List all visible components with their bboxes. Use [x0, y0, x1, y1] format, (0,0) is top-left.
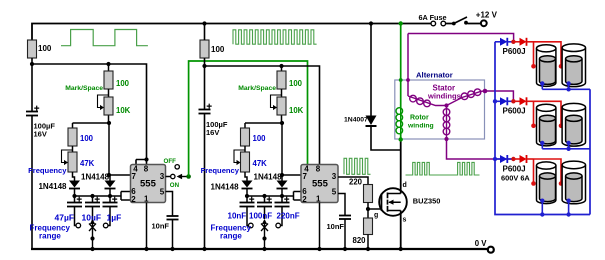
wire: positive feed to capacitor bank row 3 (red) [534, 159, 562, 184]
wire: circuit2 Vcc rail [205, 66, 320, 165]
svg-text:+12 V: +12 V [476, 11, 498, 20]
wire: circuit2 left column [204, 24, 206, 250]
junction: C1/rail node [30, 62, 34, 66]
wire: pin1 to ground circuit 1 [146, 203, 148, 250]
svg-text:555: 555 [312, 178, 329, 189]
svg-text:100: 100 [116, 79, 130, 88]
junction: phase/diode node row 3 [511, 157, 515, 161]
capacitor bank row 3 (4 electrolytics) [537, 161, 586, 204]
capacitor C1 100uF 16V [26, 106, 55, 139]
junction: R8 ground [366, 247, 370, 251]
terminal +12V [476, 11, 498, 27]
waveform: drain burst waveform [406, 162, 480, 175]
wire: pin1 to ground circuit 2 [319, 203, 321, 250]
svg-text:8: 8 [316, 165, 321, 174]
capacitor bank row 2 (4 electrolytics) [537, 103, 586, 146]
capacitor C7 10nF circuit 2 [228, 196, 255, 226]
resistor R4 100 (supply decoupling, circuit 2) [200, 40, 225, 58]
svg-text:16V: 16V [34, 130, 47, 139]
wire: bank negative leads row 3 (blue) [542, 201, 568, 215]
node A junction circuit2 [280, 121, 284, 125]
svg-text:100: 100 [80, 134, 94, 143]
rotor winding (green) [396, 21, 434, 141]
junction: C5 ground [170, 247, 174, 251]
diode D9 P600J (upper, red) row 2 [513, 97, 533, 105]
diode D3 1N4148 circuit 2 [211, 172, 253, 196]
waveform: 555 #2 output fast square wave [233, 30, 317, 44]
svg-text:5: 5 [160, 187, 165, 196]
svg-text:P600J: P600J [503, 164, 526, 173]
diode D5 1N4007 flyback [344, 24, 401, 151]
junction: C10 ground [343, 247, 347, 251]
wire: circuit1 left column [31, 58, 33, 249]
wire: node A to pin7 circuit 1 [73, 116, 131, 176]
junction: circuit2 rail tap [202, 21, 206, 25]
svg-text:100: 100 [38, 44, 52, 53]
junction: switch pole ground circuit 1 [90, 247, 94, 251]
svg-text:1: 1 [316, 194, 321, 203]
alternator enclosure box [395, 80, 485, 139]
capacitor C2 47uF circuit 1 [55, 196, 83, 226]
svg-text:1N4148: 1N4148 [38, 182, 67, 191]
svg-text:3: 3 [332, 172, 337, 181]
svg-text:OFF: OFF [164, 158, 177, 165]
svg-text:10K: 10K [116, 106, 131, 115]
svg-text:10µF: 10µF [82, 213, 102, 223]
node A junction circuit1 [107, 121, 111, 125]
wire: phase 3 feed (purple) [447, 139, 514, 159]
svg-text:100: 100 [289, 79, 303, 88]
resistor R3 100 (frequency, circuit 1) [68, 123, 94, 146]
svg-text:7: 7 [132, 172, 137, 181]
wire: bank negative leads row 2 (blue) [542, 143, 568, 149]
capacitor C8 100nF circuit 2 [249, 196, 272, 221]
svg-text:2: 2 [302, 195, 307, 204]
diode D7 P600J (upper, red) row 1 [513, 38, 533, 46]
potentiometer VR1 10K mark/space circuit 1 [98, 89, 131, 115]
svg-text:s: s [403, 217, 407, 224]
wire: positive feed to capacitor bank row 2 (red) [534, 101, 562, 126]
svg-text:g: g [374, 212, 378, 219]
junctions: timing caps circuit1 [72, 194, 76, 198]
svg-text:7: 7 [303, 172, 308, 181]
svg-text:1N4148: 1N4148 [254, 173, 283, 182]
terminal 0V [475, 239, 494, 253]
svg-text:16V: 16V [206, 128, 219, 137]
capacitor C5 10nF circuit 1 (pin 5) [152, 192, 179, 250]
svg-text:1: 1 [144, 194, 149, 203]
diode D10 P600J (lower, blue) row 3 [495, 155, 513, 163]
svg-text:BUZ350: BUZ350 [413, 197, 441, 206]
wire: rectifier negative bus (blue) [495, 42, 590, 215]
junction: pin4/8 tie circuit1 [144, 157, 148, 161]
svg-text:1N4148: 1N4148 [81, 173, 110, 182]
wire: drain/source column [400, 140, 402, 250]
svg-text:Mark/Space: Mark/Space [238, 85, 276, 92]
svg-text:10nF: 10nF [152, 222, 170, 231]
resistor R7 220 [349, 177, 373, 202]
pin7/discharge junction circuit1 [107, 173, 111, 177]
wire: phase 1 feed (purple) [408, 34, 514, 97]
svg-text:47µF: 47µF [55, 213, 75, 223]
junction: S4 ground [262, 247, 266, 251]
svg-text:0 V: 0 V [475, 239, 488, 248]
svg-text:10nF: 10nF [228, 212, 247, 221]
resistor R1 100 (supply decoupling, circuit 1) [28, 40, 52, 58]
wire: 0V bottom rail [31, 248, 487, 250]
resistor R6 100 (frequency, circuit 2) [241, 123, 267, 146]
wire: +12V top supply rail [32, 24, 481, 41]
wire: green gating wire to 555 #2 reset [186, 174, 191, 179]
junction: negative bus row3 [493, 157, 497, 161]
capacitor bank row 1 (4 electrolytics) [537, 44, 586, 87]
svg-text:Mark/Space: Mark/Space [65, 85, 103, 92]
resistor R8 820 [353, 218, 373, 245]
transistor Q1 BUZ350 MOSFET [374, 182, 440, 224]
capacitor C4 1uF circuit 1 [103, 196, 122, 226]
svg-text:2: 2 [131, 195, 136, 204]
op-amp/timer U1 555 circuit 1 [131, 165, 166, 205]
wire: timing cap bus circuit 2 [247, 192, 301, 201]
svg-text:winding: winding [407, 122, 434, 129]
svg-text:Frequency: Frequency [28, 166, 67, 175]
switch S3 ON/OFF (555 #1 output) [164, 158, 189, 189]
svg-text:5: 5 [332, 187, 337, 196]
waveform: 555 #1 output square wave [61, 30, 148, 46]
junction: C6 node [202, 64, 206, 68]
svg-text:Rotor: Rotor [410, 115, 429, 122]
svg-text:ON: ON [170, 182, 180, 189]
svg-text:6A Fuse: 6A Fuse [419, 13, 447, 22]
wire: phase 2 feed (purple) [485, 91, 513, 101]
diode D2 1N4148 circuit 1 [81, 173, 116, 197]
svg-text:d: d [403, 182, 407, 189]
diode D11 P600J (upper, red) row 3 [513, 155, 533, 163]
svg-text:P600J: P600J [503, 47, 526, 56]
diode D1 1N4148 circuit 1 [38, 172, 80, 196]
junctions: timing caps circuit2 [245, 194, 249, 198]
diode D8 P600J (lower, blue) row 2 [495, 97, 513, 105]
svg-text:220nF: 220nF [277, 212, 300, 221]
junction: phase/diode node row 2 [511, 99, 515, 103]
svg-text:1N4148: 1N4148 [211, 183, 240, 192]
junction: 1N4007 rail tap [369, 21, 373, 25]
svg-text:100: 100 [253, 134, 267, 143]
wire: positive feed to capacitor bank row 1 (red) [534, 42, 562, 67]
potentiometer VR4 47K frequency circuit 2 [234, 146, 267, 172]
wire: circuit1 Vcc rail [32, 64, 147, 165]
diode D4 1N4148 circuit 2 [254, 173, 288, 197]
switch S1 on/off [452, 17, 468, 25]
svg-text:10nF: 10nF [327, 222, 345, 231]
svg-text:P600J: P600J [503, 107, 526, 116]
svg-text:100: 100 [211, 45, 225, 54]
capacitor C9 220nF circuit 2 [275, 196, 300, 226]
svg-text:47K: 47K [80, 159, 95, 168]
svg-text:600V 6A: 600V 6A [501, 173, 530, 182]
svg-text:10K: 10K [289, 106, 304, 115]
svg-text:windings: windings [427, 92, 461, 101]
wire: bank negative leads row 1 (blue) [542, 84, 568, 90]
junction: mark-space tap circuit2 [279, 64, 283, 68]
timer U2 555 circuit 2 [301, 165, 338, 205]
capacitor C3 10uF circuit 1 [82, 196, 102, 223]
wire: timing cap bus circuit 1 [75, 192, 131, 201]
svg-text:100nF: 100nF [249, 212, 272, 221]
switch S2 frequency range circuit 1 [76, 219, 108, 249]
wire: gate node [368, 203, 382, 219]
junction: MOSFET source ground [399, 247, 403, 251]
potentiometer VR2 47K frequency circuit 1 [62, 146, 95, 172]
potentiometer VR3 10K mark/space circuit 2 [271, 89, 304, 115]
svg-text:220: 220 [349, 177, 363, 186]
junction: gate node [366, 207, 370, 211]
resistor R2 100 (mark/space, circuit 1) [104, 64, 130, 89]
svg-text:820: 820 [353, 236, 367, 245]
svg-text:Frequency: Frequency [201, 166, 240, 175]
diode D6 P600J (lower, blue) row 1 [495, 38, 513, 46]
capacitor C6 100uF 16V circuit 2 [199, 104, 228, 137]
switch S4 frequency range circuit 2 [249, 219, 281, 249]
svg-text:1µF: 1µF [107, 213, 122, 223]
capacitor C10 10nF circuit 2 (pin 5) [327, 194, 352, 250]
junction: circuit2 column ground [202, 247, 206, 251]
wire: pin3 to gate resistor [338, 177, 368, 185]
junction: mark-space chain tap [106, 62, 110, 66]
junction: phase/diode node row 1 [511, 40, 515, 44]
wire: node A to pin7 circuit 2 [245, 116, 301, 176]
svg-text:range: range [39, 232, 61, 241]
svg-text:47K: 47K [253, 159, 268, 168]
svg-text:1N4007: 1N4007 [344, 116, 368, 123]
stator windings (purple Y) [406, 78, 487, 141]
pin7/discharge junction circuit2 [280, 173, 284, 177]
svg-text:555: 555 [140, 178, 157, 189]
fuse F1 6A [419, 13, 447, 26]
svg-text:range: range [220, 232, 242, 241]
junction: negative bus row2 [493, 99, 497, 103]
resistor R5 100 (mark/space, circuit 2) [277, 66, 303, 89]
svg-text:Alternator: Alternator [416, 71, 453, 80]
svg-text:3: 3 [160, 172, 165, 181]
waveform: gate burst waveform [344, 158, 371, 174]
svg-text:8: 8 [144, 165, 149, 174]
